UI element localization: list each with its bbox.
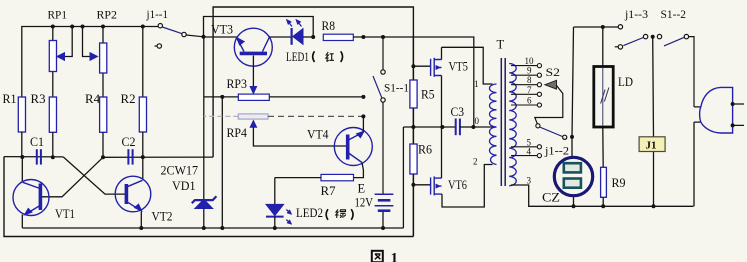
node RP2 top junction: [101, 25, 105, 29]
svg-text:j1--2: j1--2: [544, 143, 569, 157]
label R3: [31, 92, 46, 106]
label C1: [30, 135, 44, 149]
node R5 bottom junction: [411, 125, 415, 129]
switch j1-1: [155, 24, 204, 49]
label VT3: [211, 23, 233, 37]
svg-text:1: 1: [474, 79, 479, 89]
resistor R4: [100, 97, 107, 157]
node VT2 emitter junction: [139, 226, 143, 230]
svg-text:4: 4: [527, 147, 532, 157]
potentiometer RP2: [83, 27, 107, 98]
MOSFET VT6: [413, 127, 492, 207]
label VT6: [448, 178, 467, 192]
capacitor C3: [456, 119, 474, 136]
svg-text:12V: 12V: [355, 196, 374, 210]
socket CZ: [554, 157, 592, 195]
wire top right rail: [574, 26, 619, 28]
wire coupling row y157 left: [4, 156, 63, 158]
label E: [358, 182, 366, 196]
label tap 2: [473, 157, 478, 167]
node C2 left junction: [101, 155, 105, 159]
label LD: [618, 75, 633, 89]
svg-text:S1--1: S1--1: [384, 81, 409, 95]
node battery minus junction: [381, 226, 385, 230]
label RP4: [227, 126, 248, 140]
resistor R7: [275, 174, 354, 180]
zener diode VD1: [192, 37, 217, 228]
wire VT5 drain to primary top: [442, 47, 493, 84]
potentiometer RP1: [49, 27, 72, 98]
potentiometer RP3: [204, 56, 364, 101]
wire top-left rail: [22, 27, 158, 98]
capacitor C2: [128, 149, 132, 164]
label RP1: [48, 8, 68, 22]
label 2CW17: [161, 164, 199, 178]
LED LED1: [286, 19, 313, 45]
battery E: [375, 194, 394, 228]
transformer T primary winding: [489, 84, 496, 165]
svg-text:2CW17: 2CW17: [161, 164, 199, 178]
label j1-2: [544, 143, 569, 157]
wire center tap: [473, 126, 493, 128]
label R7: [321, 184, 336, 198]
label tap 5: [527, 137, 532, 147]
svg-text:J1: J1: [646, 140, 657, 152]
wire coupling row y157 right: [103, 156, 213, 158]
svg-text:LED2: LED2: [296, 206, 323, 220]
svg-text:R5: R5: [421, 88, 435, 102]
label R9: [612, 176, 626, 190]
border outer frame: [4, 7, 413, 237]
switch S1-1: [373, 37, 385, 194]
resistor R9: [601, 167, 607, 206]
LED LED2: [266, 178, 292, 228]
label LED2 (green): [296, 206, 353, 220]
resistor R5: [410, 37, 417, 144]
svg-text:j1--1: j1--1: [146, 7, 168, 21]
caption number 1: [391, 251, 399, 262]
label CZ: [542, 191, 560, 205]
label tap 9: [527, 66, 532, 76]
resistor R6: [410, 144, 417, 237]
label RP2: [97, 8, 118, 22]
relay coil J1: [639, 37, 665, 207]
svg-text:9: 9: [527, 66, 532, 76]
node VT5 source junction: [440, 125, 444, 129]
label R4: [85, 92, 101, 106]
wire CZ column: [572, 27, 574, 206]
wire column x222: [221, 97, 223, 228]
svg-text:RP2: RP2: [97, 8, 118, 22]
node RP2 wiper junction: [81, 25, 85, 29]
transistor VT4: [334, 116, 372, 177]
svg-text:VT1: VT1: [55, 207, 75, 221]
svg-text:10: 10: [525, 56, 535, 66]
wire cross-coupling C1 to VT2 base: [63, 157, 125, 194]
svg-text:8: 8: [527, 75, 532, 85]
lamp LD: [594, 27, 613, 167]
node RP1 top junction: [51, 25, 55, 29]
svg-text:j1--3: j1--3: [624, 7, 648, 21]
wire battery rail right end: [402, 127, 404, 228]
svg-text:LED1: LED1: [286, 50, 309, 64]
svg-text:C3: C3: [451, 105, 465, 119]
svg-text:VT6: VT6: [448, 178, 467, 192]
caption figure 1: [372, 251, 383, 262]
label R5: [421, 88, 435, 102]
label S2: [546, 65, 561, 79]
svg-text:C2: C2: [122, 135, 136, 149]
svg-text:RP1: RP1: [48, 8, 68, 22]
label S1-1: [384, 81, 409, 95]
label tap 0: [475, 116, 480, 126]
label T: [497, 38, 505, 52]
node LED1 cathode junction: [311, 35, 315, 39]
svg-text:3: 3: [527, 175, 532, 185]
label j1-3: [624, 7, 648, 21]
node R8 right junction: [361, 35, 365, 39]
svg-text:0: 0: [475, 116, 480, 126]
node J1 bottom junction: [652, 204, 656, 208]
node S1-1 top junction: [381, 35, 385, 39]
speaker YD: [694, 87, 744, 206]
svg-text:CZ: CZ: [542, 191, 560, 205]
node RP3 left column junction: [220, 95, 224, 99]
node column x222 rail junction: [220, 226, 224, 230]
label R8: [322, 19, 336, 33]
label S1-2: [661, 7, 687, 21]
label R1: [3, 92, 17, 106]
node VT5 gate junction: [411, 64, 415, 68]
node CZ bottom junction: [572, 204, 576, 208]
svg-text:R3: R3: [31, 92, 46, 106]
potentiometer RP4 faded: [204, 114, 364, 146]
resistor R2: [139, 27, 146, 158]
selector switch S2: [535, 80, 563, 128]
svg-text:R1: R1: [3, 92, 17, 106]
svg-text:VT2: VT2: [152, 210, 173, 224]
svg-text:R7: R7: [321, 184, 336, 198]
node R2 top junction: [141, 25, 145, 29]
wire cross-coupling C2 to VT1 base: [42, 157, 104, 197]
transformer T secondary winding: [509, 64, 516, 186]
switch j1-3: [615, 25, 648, 50]
svg-text:R6: R6: [418, 143, 432, 157]
secondary tap wires with terminals: [511, 64, 542, 158]
wire emitter rail y228: [22, 227, 403, 229]
capacitor C1: [37, 149, 41, 164]
transistor VT2: [115, 157, 151, 228]
label C3: [451, 105, 465, 119]
label tap 10: [525, 56, 535, 66]
label RP3: [227, 77, 248, 91]
node R2 bottom junction: [141, 155, 145, 159]
node C1 right junction: [51, 155, 55, 159]
svg-text:LD: LD: [618, 75, 633, 89]
label VD1: [172, 179, 196, 193]
node VD1 anode junction: [202, 226, 206, 230]
label LED1 (red): [286, 50, 343, 64]
svg-text:R8: R8: [322, 19, 336, 33]
svg-text:C1: C1: [30, 135, 44, 149]
label VT4: [307, 128, 329, 142]
svg-text:VD1: VD1: [172, 179, 196, 193]
label R6: [418, 143, 432, 157]
switch S1-2: [657, 34, 694, 107]
transistor VT1: [13, 157, 49, 228]
label tap 7: [527, 85, 532, 95]
svg-text:R2: R2: [121, 92, 136, 106]
label tap 6: [527, 95, 532, 105]
label VT2: [152, 210, 173, 224]
svg-text:S1--2: S1--2: [661, 7, 687, 21]
node j1-2 output junction: [570, 135, 574, 139]
MOSFET VT5: [413, 47, 441, 127]
svg-text:VT5: VT5: [449, 60, 469, 74]
node relay contact junction: [651, 35, 655, 39]
resistor R1: [18, 97, 25, 157]
svg-text:R9: R9: [612, 176, 626, 190]
svg-text:S2: S2: [546, 65, 561, 79]
label tap 8: [527, 75, 532, 85]
node j1-1 to VT3 junction: [202, 35, 206, 39]
node LED2 cathode junction: [273, 226, 277, 230]
node R9 bottom junction: [601, 204, 605, 208]
svg-text:RP4: RP4: [227, 126, 248, 140]
label VT1: [55, 207, 75, 221]
svg-text:1: 1: [391, 251, 399, 262]
transistor VT3: [204, 28, 291, 66]
node VT6 gate junction: [411, 183, 415, 187]
svg-text:2: 2: [473, 157, 478, 167]
node RP4 right column junction: [361, 114, 365, 118]
label tap 1: [474, 79, 479, 89]
svg-text:VT3: VT3: [211, 23, 233, 37]
svg-text:E: E: [358, 182, 366, 196]
svg-text:RP3: RP3: [227, 77, 248, 91]
node LD top junction: [601, 25, 605, 29]
node RP1 wiper junction: [70, 25, 74, 29]
label tap 3: [527, 175, 532, 185]
label VT5: [449, 60, 469, 74]
label tap 4: [527, 147, 532, 157]
node C1 left junction: [20, 155, 24, 159]
resistor R8: [323, 34, 474, 127]
svg-text:VT4: VT4: [307, 128, 329, 142]
wire tap3 to bottom rail: [511, 185, 694, 206]
label 12V: [355, 196, 374, 210]
label R2: [121, 92, 136, 106]
label j1-1: [146, 7, 168, 21]
node transformer tap0 junction: [471, 125, 475, 129]
label C2: [122, 135, 136, 149]
svg-text:T: T: [497, 38, 505, 52]
svg-text:7: 7: [527, 85, 532, 95]
wire source row y127: [403, 126, 455, 128]
resistor R3: [49, 97, 56, 157]
transformer T core: [501, 58, 505, 186]
wire inner top loop: [204, 17, 314, 38]
switch j1-2: [540, 127, 567, 139]
svg-text:6: 6: [527, 95, 532, 105]
node RP3 right column junction: [361, 95, 365, 99]
svg-text:R4: R4: [85, 92, 101, 106]
